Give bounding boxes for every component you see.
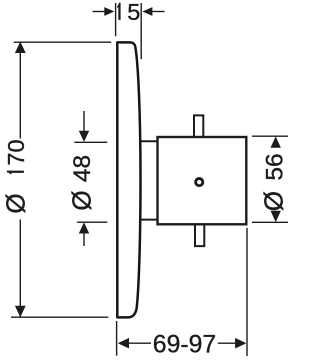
dimension Ø56: value label xyxy=(259,153,289,211)
dimension Ø170: bottom extension line xyxy=(11,316,108,318)
dimension Ø170: bottom arrow xyxy=(15,306,26,318)
dimension Ø56: bottom arrow xyxy=(271,211,281,222)
dimension 69-97: value label xyxy=(153,332,216,359)
valve body square (Ø56 housing) xyxy=(158,137,247,224)
dimension Ø48: bottom extension line xyxy=(77,221,107,223)
dimension 15: value label xyxy=(117,0,140,25)
dimension Ø170: value label xyxy=(0,139,30,213)
center ring xyxy=(196,179,203,186)
dimension Ø56: bottom extension line xyxy=(252,221,288,223)
svg-text:56: 56 xyxy=(261,153,288,180)
svg-text:Ø: Ø xyxy=(0,193,30,213)
bottom tab xyxy=(195,224,204,246)
svg-text:48: 48 xyxy=(69,155,96,182)
dimension Ø48: value label xyxy=(66,155,96,211)
top tab xyxy=(194,115,203,137)
dimension Ø170: top extension line xyxy=(14,41,111,43)
dimension Ø56: top extension line xyxy=(252,135,288,137)
dimension Ø56: top arrow xyxy=(271,136,281,147)
dimension 69-97: left extension line xyxy=(116,321,118,356)
dimension 15: right extension line xyxy=(140,3,142,59)
dimension 69-97: right arrow xyxy=(218,338,247,349)
dimension Ø170: top arrow xyxy=(15,42,26,54)
svg-text:69-97: 69-97 xyxy=(153,332,216,359)
svg-text:70: 70 xyxy=(3,139,29,165)
svg-text:Ø: Ø xyxy=(259,191,288,211)
dimension 69-97: left arrow xyxy=(118,338,151,349)
escutcheon plate (side view, Ø170 round plate) xyxy=(117,42,140,317)
dimension 69-97: right extension line xyxy=(246,228,248,356)
dimension Ø48: top extension line xyxy=(74,141,107,143)
sleeve neck (Ø48) bottom line xyxy=(140,219,158,221)
dimension Ø48: bottom dimension line and arrow xyxy=(79,222,89,246)
dimension 15: left arrow xyxy=(93,7,115,16)
dimension 15: right arrow xyxy=(142,7,164,16)
dimension Ø170: dimension line xyxy=(19,43,21,317)
svg-text:Ø: Ø xyxy=(66,190,96,210)
dimension 15: left extension line xyxy=(115,3,117,36)
sleeve neck (Ø48) top line xyxy=(140,140,158,142)
svg-text:5: 5 xyxy=(127,0,140,25)
dimension Ø48: top dimension line and arrow xyxy=(79,111,89,142)
